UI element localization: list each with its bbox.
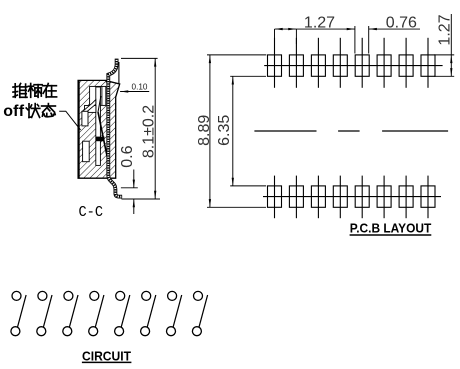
pad column line top 5 — [361, 38, 363, 88]
dim 0.76 line right — [369, 28, 420, 30]
switch 6 lever — [147, 295, 156, 327]
switch 1 lever — [18, 295, 27, 327]
svg-text:1.27: 1.27 — [304, 15, 335, 32]
seating plane line — [122, 198, 161, 200]
body left wall (thick) — [78, 80, 80, 178]
dim 6.35 line — [232, 76, 234, 186]
switch 1 bottom contact — [11, 327, 20, 336]
switch 7 bottom contact — [167, 327, 176, 336]
pad column line top 6 — [383, 38, 385, 88]
dim right 1.27 line — [450, 14, 452, 76]
switch 3 lever — [69, 295, 78, 327]
dim 8.89 ext top — [207, 54, 266, 56]
dim 6.35 ext bottom — [230, 185, 266, 187]
svg-text:0.6: 0.6 — [119, 145, 136, 167]
dim 0.6 line lower — [133, 199, 135, 214]
pad column line top 4 — [339, 38, 341, 88]
switch 5 bottom contact — [115, 327, 124, 336]
pad top 6 — [377, 55, 391, 76]
pad column line top 2 — [295, 38, 297, 88]
label P.C.B LAYOUT underline — [350, 234, 432, 236]
switch 8 bottom contact — [192, 327, 201, 336]
pad bottom 7 — [399, 186, 413, 207]
svg-text:6.35: 6.35 — [216, 115, 233, 146]
pad top 3 — [311, 55, 325, 76]
switch 8 lever — [199, 295, 208, 327]
switch 4 bottom contact — [89, 327, 98, 336]
cavity: slider shaft — [96, 87, 101, 165]
pad column line top 3 — [317, 38, 319, 88]
switch 4 lever — [95, 295, 104, 327]
annotation glyph zhuang 状 — [26, 104, 40, 118]
pad bottom 5 — [355, 186, 369, 207]
pad bottom 3 — [311, 186, 325, 207]
pad column line top 7 — [405, 38, 407, 88]
pad top 5 — [355, 55, 369, 76]
switch 6 bottom contact — [141, 327, 150, 336]
pad column line bottom 6 — [383, 176, 385, 219]
annotation glyph bing 柄 — [28, 84, 42, 98]
svg-text:off: off — [3, 103, 25, 120]
annotation glyph tai 态 — [42, 104, 56, 117]
dim 0.6 line upper — [133, 170, 135, 188]
dim 0.10 leader — [120, 91, 149, 93]
pad top 8 — [421, 55, 435, 76]
svg-text:P.C.B LAYOUT: P.C.B LAYOUT — [350, 221, 432, 236]
lever (off position) — [98, 112, 108, 159]
pad top 1 — [268, 55, 282, 76]
switch 2 top contact — [38, 291, 47, 300]
body top-right edge — [118, 62, 120, 84]
dim 1.27 line — [275, 28, 355, 30]
pad column line bottom 3 — [317, 176, 319, 219]
cavity: white wedge — [83, 100, 96, 113]
pad top 2 — [289, 55, 303, 76]
pad column line bottom 8 — [427, 176, 429, 219]
svg-text:8.89: 8.89 — [196, 115, 213, 146]
dim 8.1±0.2 line — [154, 58, 156, 199]
pad top 7 — [399, 55, 413, 76]
dim 8.1±0.2 extension top — [121, 57, 158, 59]
svg-text:1.27: 1.27 — [437, 14, 454, 45]
annotation glyph tui 推 — [13, 84, 27, 98]
switch body cross-section (hatched) — [78, 80, 120, 178]
annotation leader — [59, 111, 80, 130]
dim 8.89 ext bottom — [207, 206, 266, 208]
switch 5 lever — [121, 295, 130, 327]
dim 0.6 extension — [121, 187, 138, 189]
label CIRCUIT underline — [82, 361, 131, 363]
pad column line bottom 4 — [339, 176, 341, 219]
pcb center dashed line — [254, 130, 448, 132]
svg-text:0.76: 0.76 — [386, 14, 417, 31]
pad column line bottom 5 — [361, 176, 363, 219]
cavity: middle band — [85, 106, 96, 113]
cavity: pocket B — [83, 141, 90, 162]
dim right 1.27 ext lines — [434, 54, 454, 56]
cavity: pocket A — [82, 111, 88, 126]
pad bottom 8 — [421, 186, 435, 207]
contact block — [96, 137, 105, 142]
switch 2 bottom contact — [37, 327, 46, 336]
pcb top row centerline — [264, 65, 442, 67]
spring link — [98, 96, 101, 112]
dim 6.35 ext top — [230, 75, 266, 77]
pcb bottom row centerline — [263, 196, 441, 198]
pad bottom 4 — [333, 186, 347, 207]
dim 0.76 ext lines — [354, 26, 356, 54]
switch 2 lever — [43, 295, 52, 327]
pad column line bottom 7 — [405, 176, 407, 219]
pad bottom 6 — [377, 186, 391, 207]
svg-text:0.10: 0.10 — [132, 82, 148, 91]
pad top 4 — [333, 55, 347, 76]
switch 6 top contact — [142, 291, 151, 300]
switch 7 top contact — [168, 291, 177, 300]
cavity: slider top opening — [90, 86, 106, 105]
pad bottom 2 — [289, 186, 303, 207]
annotation glyph zai 在 — [43, 84, 57, 98]
switch 7 lever — [173, 295, 182, 327]
switch 5 top contact — [116, 291, 125, 300]
pad bottom 1 — [268, 186, 282, 207]
pad column line top 1 — [274, 38, 276, 88]
switch 8 top contact — [194, 291, 203, 300]
dim 1.27 ext lines — [274, 29, 276, 44]
gull-wing lead (stippled section) — [108, 59, 122, 197]
pad column line bottom 2 — [295, 176, 297, 219]
switch 3 top contact — [64, 291, 73, 300]
dim 8.89 line — [209, 55, 211, 207]
switch 3 bottom contact — [63, 327, 72, 336]
pad column line bottom 1 — [274, 176, 276, 219]
svg-text:8.1±0.2: 8.1±0.2 — [140, 105, 157, 158]
svg-text:CIRCUIT: CIRCUIT — [82, 348, 131, 363]
svg-text:C-C: C-C — [79, 204, 104, 221]
pad column line top 8 — [427, 38, 429, 88]
switch 4 top contact — [90, 291, 99, 300]
switch 1 top contact — [12, 291, 21, 300]
